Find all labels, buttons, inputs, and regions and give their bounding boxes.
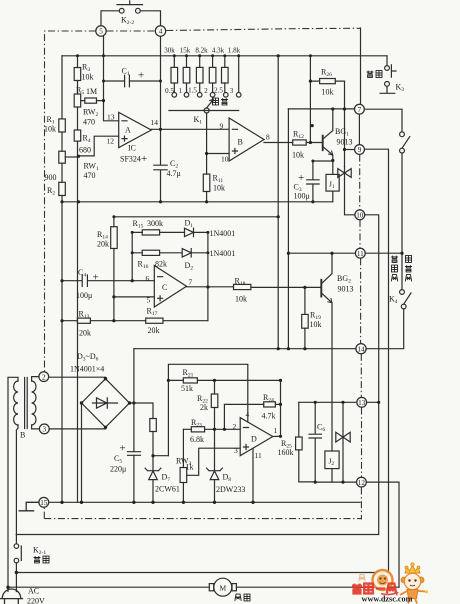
node 4 [155, 26, 165, 36]
svg-text:D: D [251, 435, 257, 444]
diode D2 1N4001 [182, 249, 208, 257]
wire resistor-bank stubs and terminals [174, 56, 238, 92]
wire bridge output to R20 [130, 403, 169, 502]
resistor 15k [183, 67, 190, 83]
svg-text:10k: 10k [322, 88, 334, 97]
label putongfeng normal wind [391, 256, 398, 263]
bridge rectifier D3-D6 [82, 379, 130, 428]
svg-text:R11: R11 [213, 174, 224, 185]
svg-text:10k: 10k [292, 151, 304, 160]
op-amp D [240, 418, 273, 456]
svg-text:2: 2 [233, 422, 237, 431]
wire node4 column x160.5 with capacitor C2 [154, 36, 167, 202]
svg-text:680: 680 [79, 146, 91, 155]
svg-text:11: 11 [255, 451, 262, 460]
svg-text:C5: C5 [114, 454, 122, 465]
resistor R14 [111, 227, 118, 249]
op-amp B [229, 118, 264, 161]
svg-text:+: + [93, 272, 99, 284]
svg-text:K2-2: K2-2 [121, 16, 134, 27]
labels op-amp D pins [233, 410, 278, 460]
chain node10 to node11 [359, 220, 361, 248]
transformer core [25, 378, 28, 429]
op-amp C [154, 266, 186, 308]
wire K1 pivot column with resistor R11 [207, 113, 230, 202]
wire RW3 wiper to pin3 [187, 448, 241, 475]
motor M [214, 578, 232, 596]
chain dash-dot linkage lines [44, 28, 361, 519]
AC 220V plug [1, 589, 23, 604]
svg-text:3: 3 [43, 426, 47, 434]
resistor R21 [183, 378, 197, 383]
wire B output [264, 142, 323, 144]
labels K1 hour terminals [165, 87, 234, 96]
label fengshan fan [235, 594, 241, 601]
wire R23 left column to RW3 [182, 429, 184, 502]
switch K3 with stop label [380, 56, 396, 94]
svg-text:14: 14 [151, 118, 159, 127]
wire secondary to node3 [32, 425, 40, 429]
node 5 [96, 26, 106, 36]
wire ground rail y201.8 [62, 201, 333, 203]
svg-text:+: + [120, 443, 126, 455]
svg-text:AC: AC [28, 587, 39, 596]
svg-text:J2: J2 [329, 457, 335, 468]
wire A output to B input [151, 128, 229, 130]
svg-text:82k: 82k [155, 260, 167, 269]
switch K2-2 pushbutton [101, 1, 161, 26]
svg-text:10: 10 [221, 155, 229, 164]
wire node15 left with chassis bar [19, 502, 39, 511]
svg-text:1N4001: 1N4001 [210, 229, 236, 238]
svg-text:1: 1 [274, 426, 278, 435]
watermark red text weiku yixia [352, 584, 397, 596]
switch K2-1 start button [16, 535, 21, 592]
svg-text:B: B [238, 138, 243, 147]
svg-text:3: 3 [234, 446, 238, 455]
wire op-amp D minus line y429.3 [183, 428, 240, 430]
svg-text:+: + [141, 153, 147, 165]
transformer B secondary coil [32, 381, 36, 425]
node 12 [357, 477, 367, 487]
svg-text:160k: 160k [278, 448, 294, 457]
svg-text:C1: C1 [122, 67, 130, 78]
motor M brushes [209, 584, 213, 591]
chain node9 to node10 [359, 155, 361, 210]
svg-text:8: 8 [266, 133, 270, 142]
wire node5 column x103.5 [104, 36, 119, 121]
svg-text:4.7μ: 4.7μ [167, 169, 181, 178]
svg-text:R17: R17 [147, 307, 158, 318]
wire pin11 to ground rail [252, 448, 254, 502]
wire bridge minus to ground rail [81, 403, 83, 502]
svg-text:10k: 10k [235, 295, 247, 304]
node 13 [357, 397, 367, 407]
Chinese character labels drawn as glyph strokes [34, 71, 412, 601]
switch K4 contacts and blade [400, 290, 405, 295]
resistor R24 [264, 402, 276, 407]
diode D1 1N4001 [185, 228, 208, 236]
svg-text:R13: R13 [79, 310, 90, 321]
wire RW1 wiper [65, 156, 78, 158]
resistor R18 [234, 284, 251, 289]
capacitor C3 [307, 161, 319, 202]
wire chain from node4 to node7 drop [360, 28, 362, 104]
wire op-amp C minus input line with capacitor C4 [62, 275, 154, 286]
wire feedback left connector x132.2 [131, 232, 133, 280]
svg-text:51k: 51k [181, 384, 193, 393]
resistor R23 [191, 427, 204, 432]
wire D output [273, 435, 281, 437]
svg-text:2DW233: 2DW233 [216, 485, 245, 494]
transistor BG1 [322, 136, 324, 151]
labels op-amp B pins [220, 122, 271, 164]
svg-text:R4: R4 [83, 134, 91, 145]
svg-text:1k: 1k [186, 463, 194, 472]
svg-text:R16: R16 [138, 260, 149, 271]
wire C5 column x133.9 [133, 349, 135, 503]
wire node9 right long loop to bottom [16, 149, 388, 572]
wire op-amp C plus input line [114, 296, 154, 298]
svg-text:R2: R2 [47, 186, 55, 197]
svg-text:D2: D2 [185, 261, 194, 272]
wire emitter to C3 line [313, 160, 333, 162]
svg-text:12: 12 [358, 479, 366, 487]
svg-text:SF324: SF324 [120, 155, 141, 164]
node 10 [355, 210, 365, 220]
svg-text:R15: R15 [133, 219, 144, 230]
chain node11 to node14 [360, 258, 362, 343]
chain node5 left and down to node2 [45, 31, 96, 371]
svg-text:6.8k: 6.8k [190, 435, 204, 444]
svg-text:1: 1 [179, 87, 183, 95]
label xiaoshi hours [213, 98, 219, 105]
svg-text:6: 6 [146, 274, 150, 283]
wire supply line y348.7 to node14 [134, 348, 356, 350]
wire node7 right to switch [364, 109, 402, 252]
svg-text:2k: 2k [200, 403, 208, 412]
svg-text:1M: 1M [86, 87, 97, 96]
chain node14 to node13 [360, 354, 362, 397]
label qidong start [34, 556, 41, 563]
resistor R15 300k [132, 231, 184, 233]
resistor R1 [59, 119, 66, 132]
svg-text:470: 470 [83, 118, 95, 127]
svg-text:D3~D6: D3~D6 [77, 352, 99, 363]
svg-text:K1: K1 [194, 115, 203, 126]
svg-text:D8: D8 [223, 473, 232, 484]
svg-text:C: C [162, 283, 167, 292]
svg-text:10k: 10k [213, 184, 225, 193]
svg-text:12: 12 [107, 137, 115, 146]
svg-text:20k: 20k [79, 329, 91, 338]
wire node3 to bridge bottom [49, 427, 105, 429]
svg-text:R26: R26 [321, 68, 332, 79]
svg-text:R18: R18 [235, 277, 246, 288]
svg-text:C4: C4 [78, 268, 86, 279]
svg-text:M: M [220, 584, 227, 593]
svg-text:15k: 15k [180, 47, 191, 55]
potentiometer RW3 [180, 468, 187, 483]
wire secondary to node2 [32, 377, 39, 381]
resistor R16 82k [132, 252, 182, 254]
resistor R13 [77, 318, 90, 323]
K1 wiper arrow [207, 100, 214, 108]
wire node10 right long loop to bottom [16, 215, 378, 535]
svg-text:470: 470 [84, 171, 96, 180]
svg-text:10k: 10k [44, 125, 56, 134]
svg-text:BG1: BG1 [335, 127, 349, 138]
svg-text:1.5: 1.5 [188, 87, 197, 95]
wire R26 column x310.4 [310, 56, 344, 143]
switch contact upper [400, 132, 405, 137]
resistor 1.8k [222, 67, 229, 83]
svg-text:8.2k: 8.2k [195, 47, 208, 55]
wire node13 line y402.3 [299, 401, 379, 403]
svg-text:K2-1: K2-1 [33, 546, 46, 557]
relay J1 [332, 161, 334, 202]
labels resistor bank values [164, 47, 240, 55]
node 9 [355, 145, 365, 155]
svg-text:4: 4 [159, 28, 163, 36]
wire node12 line y482.1 [315, 482, 399, 587]
node 14 [356, 344, 366, 354]
node 11 [355, 248, 365, 258]
wire supply riser x168.4 [168, 364, 247, 455]
svg-text:R5: R5 [76, 86, 84, 97]
svg-text:+: + [138, 70, 144, 82]
svg-text:+: + [298, 172, 304, 184]
svg-text:BG2: BG2 [337, 274, 351, 285]
svg-text:5: 5 [147, 296, 151, 305]
svg-text:4.7k: 4.7k [262, 412, 276, 421]
wire left supply column x62 [61, 56, 63, 503]
watermark mascot with crown [400, 563, 428, 604]
svg-text:D7: D7 [162, 473, 171, 484]
svg-text:1N4001×4: 1N4001×4 [70, 365, 104, 374]
svg-text:10k: 10k [82, 73, 94, 82]
svg-text:9013: 9013 [337, 138, 353, 147]
svg-text:R21: R21 [183, 368, 194, 379]
svg-text:www.dzsc.com: www.dzsc.com [362, 595, 413, 604]
svg-text:300k: 300k [147, 219, 163, 228]
svg-text:D1: D1 [185, 219, 194, 230]
capacitor C1 [104, 75, 161, 87]
svg-text:7: 7 [189, 278, 193, 287]
triac bowtie [336, 431, 350, 443]
resistor R26 [320, 79, 336, 84]
svg-text:2: 2 [42, 373, 46, 381]
resistor R11 [203, 174, 210, 191]
chain node13 to node12 [361, 408, 363, 478]
svg-text:100μ: 100μ [76, 291, 92, 300]
svg-text:13: 13 [358, 399, 366, 407]
svg-text:15: 15 [40, 499, 48, 507]
svg-text:1N4001: 1N4001 [210, 249, 236, 258]
node 7 [355, 104, 365, 114]
resistor R2 [59, 182, 66, 195]
potentiometer RW1 [59, 151, 66, 163]
svg-text:10k: 10k [310, 320, 322, 329]
svg-text:IC: IC [128, 144, 136, 153]
svg-text:7: 7 [358, 106, 362, 114]
diac D across J1 [338, 167, 351, 180]
svg-text:B: B [20, 431, 25, 440]
label monifeng simulated wind [406, 256, 412, 263]
svg-text:RW2: RW2 [83, 108, 98, 119]
potentiometer RW2 [74, 94, 81, 107]
wire feedback right connector x207.9 [207, 232, 209, 320]
svg-text:2: 2 [204, 87, 208, 95]
wire node11 line from x288.4 [288, 252, 355, 254]
svg-text:11: 11 [357, 250, 364, 258]
wire R21 line y380.4 [168, 379, 280, 381]
svg-text:2.5: 2.5 [214, 87, 223, 95]
label guanting stop [367, 71, 374, 78]
resistor R19 column [304, 287, 306, 348]
wire AC left prong [7, 587, 9, 592]
resistor 4.3k [209, 67, 216, 83]
chain node12 down to bottom chain [360, 488, 362, 520]
resistor R12 [293, 140, 307, 145]
node 2 [39, 372, 49, 382]
svg-text:30k: 30k [164, 47, 175, 55]
transformer B primary coil [14, 381, 18, 425]
resistor R25 column [299, 402, 315, 482]
capacitor C6 column [309, 402, 321, 482]
wire primary top to AC left column [8, 377, 18, 587]
resistor 30k [171, 67, 178, 83]
zener diode D7 2CW61 [145, 468, 161, 480]
chain between node5 and node4 [107, 30, 156, 32]
wire primary bottom to K2-1 column [16, 425, 18, 535]
op-amp A [119, 112, 152, 147]
resistor R5 1M horizontal [81, 100, 104, 102]
wire motor line y587 [8, 586, 399, 588]
wire R13 R17 line y320.7 [62, 320, 208, 322]
triac column across J2 [342, 402, 344, 482]
wire ground rail y502.3 [49, 501, 360, 503]
wire op-amp A pin12 path [79, 136, 119, 156]
chain bottom horizontal [44, 508, 361, 519]
svg-text:220V: 220V [27, 597, 45, 604]
svg-text:4.3k: 4.3k [212, 47, 225, 55]
chain node4 to right corner [166, 28, 360, 30]
wire C output [187, 286, 322, 289]
svg-text:5: 5 [99, 28, 103, 36]
wire J1 column with diac x344.5 [345, 81, 355, 215]
svg-text:A: A [125, 126, 131, 135]
svg-text:R3: R3 [82, 63, 90, 74]
resistor R20 [150, 419, 157, 432]
svg-text:R24: R24 [263, 393, 274, 404]
wire R3 column x77.5 [77, 56, 79, 503]
wire top supply rail [62, 55, 387, 57]
svg-text:220μ: 220μ [110, 465, 126, 474]
labels op-amp A pins [107, 113, 159, 146]
numbered connector nodes [39, 26, 367, 507]
svg-text:1.8k: 1.8k [228, 47, 241, 55]
svg-text:20k: 20k [148, 326, 160, 335]
relay J2 [325, 451, 339, 469]
wire node2 to bridge top [49, 377, 106, 379]
svg-text:J1: J1 [329, 180, 335, 191]
watermark faint character [359, 575, 365, 582]
terminal circles of K1 [172, 93, 177, 98]
wire R24 line y404.4 [224, 404, 280, 429]
resistor R22 column [214, 380, 216, 429]
svg-text:3: 3 [230, 87, 234, 95]
svg-text:14: 14 [357, 345, 365, 353]
wire BG1 cell top line y109 [288, 108, 354, 110]
wire supply column x278.2 [277, 56, 279, 347]
svg-text:100μ: 100μ [294, 192, 310, 201]
svg-text:9: 9 [358, 146, 362, 154]
svg-text:K4: K4 [389, 295, 398, 306]
svg-text:R23: R23 [191, 418, 202, 429]
labels op-amp C pins [146, 274, 193, 305]
svg-text:10: 10 [356, 212, 364, 220]
switch blade upper [402, 137, 410, 149]
svg-text:20k: 20k [97, 240, 109, 249]
transistor BG2 [320, 280, 322, 297]
rotary switch K1 bar and pivot [169, 110, 239, 112]
wire node11 right to switch K4 [365, 253, 404, 349]
wire long supply column x288.4 [287, 109, 289, 349]
svg-text:900: 900 [45, 173, 57, 182]
zener diode D8 2DW233 [207, 429, 223, 502]
svg-text:C2: C2 [170, 159, 178, 170]
svg-text:C6: C6 [317, 423, 325, 434]
svg-text:K3: K3 [396, 83, 405, 94]
svg-text:R12: R12 [293, 130, 304, 141]
wire node7 to node9 [358, 114, 360, 145]
svg-text:2CW61: 2CW61 [155, 485, 180, 494]
wire R14 column x113.9 [113, 217, 115, 321]
wire node9 left stub [345, 149, 355, 151]
capacitor C5 [128, 452, 141, 456]
resistor R3 [74, 68, 81, 81]
node 3 [39, 424, 49, 434]
resistor R4 [74, 130, 81, 141]
svg-text:9013: 9013 [338, 285, 354, 294]
wire op-amp C cell top supply line y216.8 [114, 216, 278, 218]
wire feedback column x280.5 [280, 380, 282, 436]
svg-text:9: 9 [220, 122, 224, 131]
svg-text:13: 13 [107, 113, 115, 122]
svg-text:0.5: 0.5 [165, 87, 174, 95]
svg-text:4: 4 [246, 410, 250, 419]
resistor R17 [146, 318, 163, 323]
bridge inner diode [93, 398, 118, 408]
watermark weiku logo circle [359, 570, 393, 590]
resistor 8.2k [196, 67, 203, 83]
node 15 [39, 497, 49, 507]
